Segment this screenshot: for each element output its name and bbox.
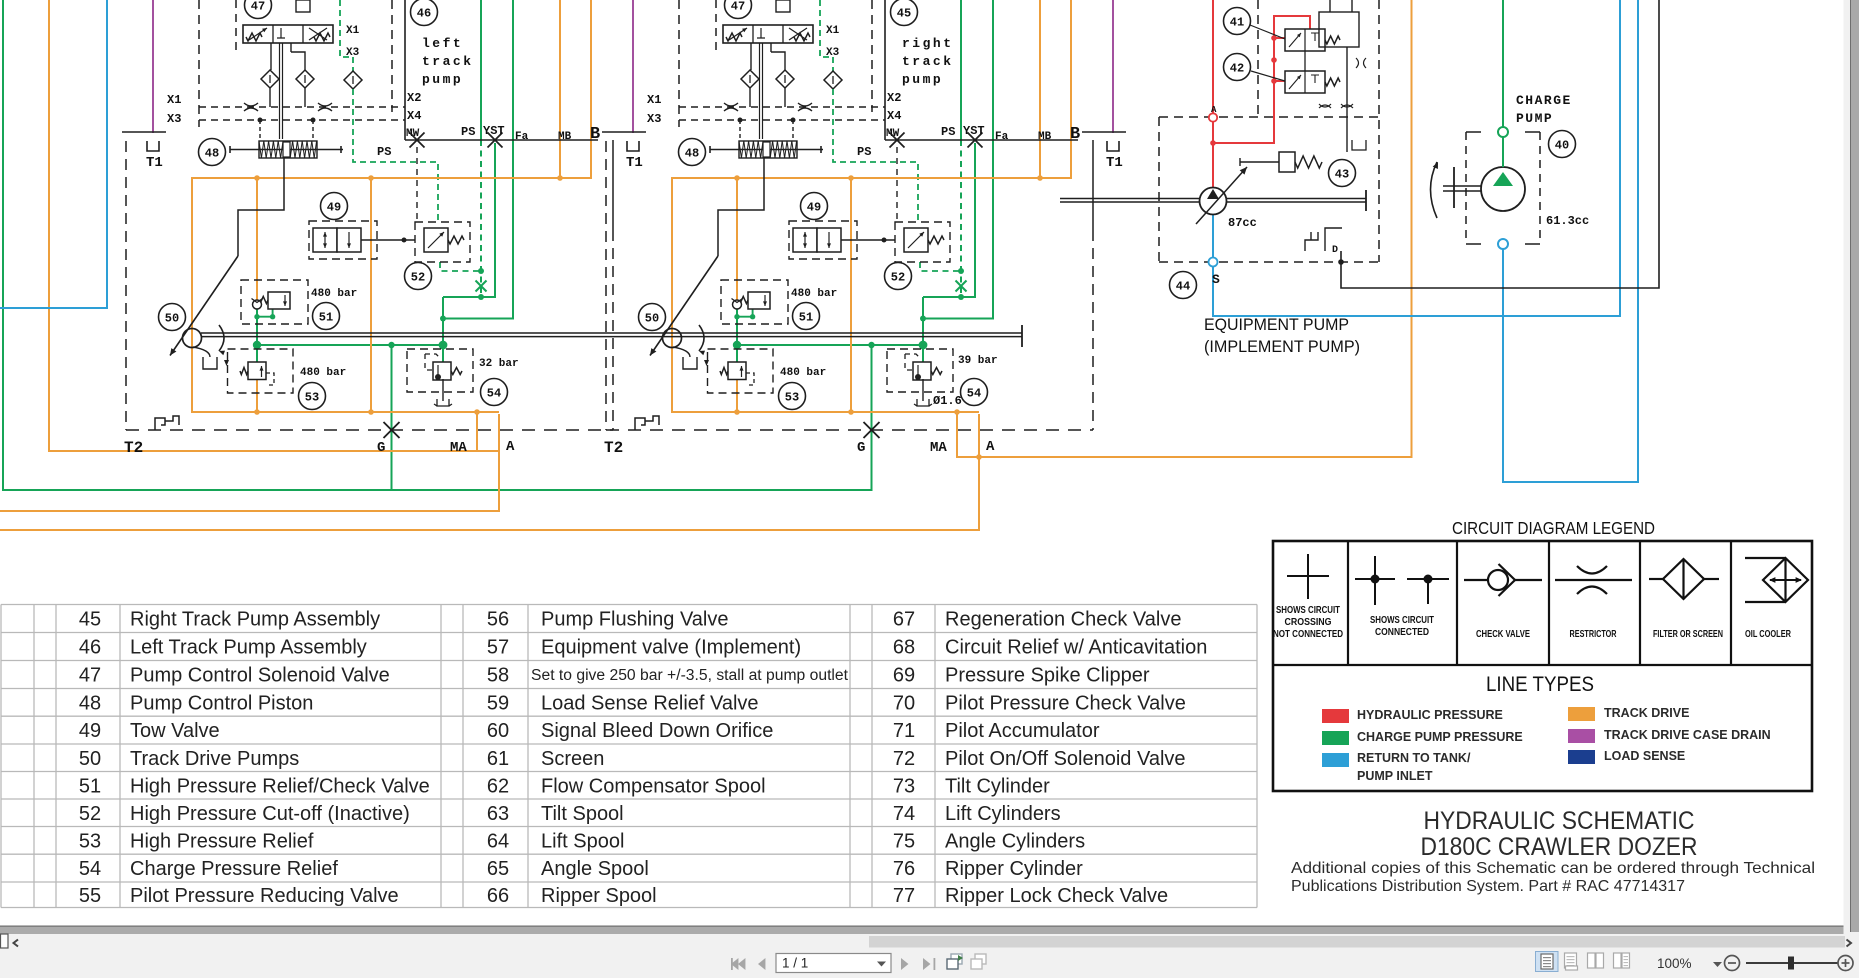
svg-text:CONNECTED: CONNECTED [1375,627,1429,638]
svg-text:Load Sense Relief Valve: Load Sense Relief Valve [541,692,759,714]
svg-text:MB: MB [1038,131,1052,143]
svg-text:43: 43 [1335,168,1349,182]
svg-text:Equipment valve (Implement): Equipment valve (Implement) [541,637,801,659]
svg-text:X3: X3 [826,47,840,59]
svg-text:X4: X4 [407,109,421,123]
svg-text:100%: 100% [1657,956,1692,971]
svg-text:52: 52 [891,271,905,285]
svg-text:X1: X1 [647,93,661,107]
svg-text:MA: MA [450,440,467,456]
svg-text:1 / 1: 1 / 1 [782,956,808,971]
svg-text:X3: X3 [346,47,360,59]
svg-text:65: 65 [487,858,509,880]
svg-text:480 bar: 480 bar [791,288,837,300]
svg-text:77: 77 [893,885,915,907]
svg-text:75: 75 [893,830,915,852]
svg-text:59: 59 [487,692,509,714]
svg-text:G: G [857,440,865,456]
svg-text:left: left [422,36,463,51]
svg-text:SHOWS CIRCUIT: SHOWS CIRCUIT [1276,605,1340,616]
svg-text:PUMP INLET: PUMP INLET [1357,769,1433,783]
svg-text:T1: T1 [146,155,163,171]
svg-text:46: 46 [79,637,101,659]
svg-text:Set to give 250 bar +/-3.5, st: Set to give 250 bar +/-3.5, stall at pum… [531,667,849,684]
svg-text:PUMP: PUMP [1516,111,1553,126]
svg-text:53: 53 [785,391,799,405]
svg-text:Pilot Pressure Check Valve: Pilot Pressure Check Valve [945,692,1186,714]
svg-text:54: 54 [487,387,501,401]
svg-text:32 bar: 32 bar [479,358,519,370]
svg-text:40: 40 [1555,139,1569,153]
svg-text:T1: T1 [1106,155,1123,171]
svg-text:Ø1.6: Ø1.6 [933,394,962,408]
svg-text:PS: PS [857,145,871,159]
svg-text:T2: T2 [604,439,623,457]
svg-text:TRACK DRIVE: TRACK DRIVE [1604,706,1689,720]
svg-text:64: 64 [487,830,509,852]
svg-text:76: 76 [893,858,915,880]
svg-text:RESTRICTOR: RESTRICTOR [1570,629,1618,640]
svg-text:Additional copies of this Sche: Additional copies of this Schematic can … [1291,860,1815,877]
svg-text:LOAD SENSE: LOAD SENSE [1604,749,1685,763]
svg-text:MW: MW [886,128,900,140]
svg-text:YST: YST [963,124,985,138]
svg-text:52: 52 [411,271,425,285]
svg-text:53: 53 [79,830,101,852]
svg-text:50: 50 [165,312,179,326]
svg-text:60: 60 [487,720,509,742]
svg-text:X3: X3 [647,112,661,126]
svg-text:CHARGE: CHARGE [1516,93,1572,108]
svg-text:pump: pump [902,72,943,87]
svg-text:Pump Flushing Valve: Pump Flushing Valve [541,609,729,631]
svg-text:56: 56 [487,609,509,631]
svg-text:70: 70 [893,692,915,714]
svg-text:51: 51 [79,775,101,797]
svg-text:39 bar: 39 bar [958,355,998,367]
svg-text:Left Track Pump Assembly: Left Track Pump Assembly [130,637,367,659]
svg-text:RETURN TO TANK/: RETURN TO TANK/ [1357,751,1471,765]
svg-text:Flow Compensator Spool: Flow Compensator Spool [541,775,766,797]
svg-text:T2: T2 [124,439,143,457]
svg-text:X1: X1 [346,25,360,37]
svg-text:480 bar: 480 bar [311,288,357,300]
svg-text:49: 49 [807,201,821,215]
svg-text:45: 45 [79,609,101,631]
svg-text:NOT CONNECTED: NOT CONNECTED [1273,629,1343,640]
svg-text:58: 58 [487,665,509,687]
svg-text:52: 52 [79,803,101,825]
svg-text:Fa: Fa [515,131,529,143]
svg-text:Signal Bleed Down Orifice: Signal Bleed Down Orifice [541,720,773,742]
svg-text:46: 46 [417,7,431,21]
svg-text:EQUIPMENT PUMP: EQUIPMENT PUMP [1204,315,1349,334]
svg-text:66: 66 [487,885,509,907]
svg-text:S: S [1212,272,1220,287]
svg-text:63: 63 [487,803,509,825]
svg-text:(IMPLEMENT PUMP): (IMPLEMENT PUMP) [1204,337,1360,356]
svg-text:Publications Distribution Syst: Publications Distribution System. Part #… [1291,878,1685,895]
svg-text:TRACK DRIVE CASE DRAIN: TRACK DRIVE CASE DRAIN [1604,728,1771,742]
svg-text:Regeneration Check Valve: Regeneration Check Valve [945,609,1181,631]
svg-text:50: 50 [79,748,101,770]
svg-text:49: 49 [327,201,341,215]
svg-text:FILTER OR SCREEN: FILTER OR SCREEN [1653,629,1723,640]
svg-text:50: 50 [645,312,659,326]
svg-text:87cc: 87cc [1228,216,1257,230]
svg-text:Pressure Spike Clipper: Pressure Spike Clipper [945,665,1150,687]
svg-text:Track Drive Pumps: Track Drive Pumps [130,748,299,770]
svg-text:57: 57 [487,637,509,659]
svg-text:Pilot Accumulator: Pilot Accumulator [945,720,1100,742]
svg-text:MA: MA [930,440,947,456]
svg-text:SHOWS CIRCUIT: SHOWS CIRCUIT [1370,615,1434,626]
svg-text:48: 48 [79,692,101,714]
svg-text:480 bar: 480 bar [780,367,826,379]
svg-text:Right Track Pump Assembly: Right Track Pump Assembly [130,609,380,631]
svg-text:G: G [377,440,385,456]
svg-text:X2: X2 [407,91,421,105]
svg-text:55: 55 [79,885,101,907]
svg-text:Circuit Relief w/ Anticavitati: Circuit Relief w/ Anticavitation [945,637,1207,659]
svg-text:Tilt Spool: Tilt Spool [541,803,624,825]
svg-text:OIL COOLER: OIL COOLER [1745,629,1792,640]
svg-text:51: 51 [799,311,813,325]
svg-text:Charge Pressure Relief: Charge Pressure Relief [130,858,338,880]
svg-text:HYDRAULIC PRESSURE: HYDRAULIC PRESSURE [1357,708,1503,722]
svg-text:CROSSING: CROSSING [1285,617,1332,628]
svg-text:54: 54 [967,387,981,401]
svg-text:48: 48 [685,147,699,161]
svg-text:62: 62 [487,775,509,797]
svg-text:61.3cc: 61.3cc [1546,214,1589,228]
svg-text:Lift Spool: Lift Spool [541,830,624,852]
svg-text:69: 69 [893,665,915,687]
svg-text:54: 54 [79,858,101,880]
svg-text:45: 45 [897,7,911,21]
svg-text:YST: YST [483,124,505,138]
svg-text:CIRCUIT DIAGRAM LEGEND: CIRCUIT DIAGRAM LEGEND [1452,518,1655,538]
svg-text:B: B [590,125,600,144]
svg-text:X1: X1 [826,25,840,37]
svg-text:Tilt Cylinder: Tilt Cylinder [945,775,1050,797]
svg-text:Ripper Cylinder: Ripper Cylinder [945,858,1083,880]
svg-text:MB: MB [558,131,572,143]
svg-text:track: track [422,54,474,69]
svg-text:61: 61 [487,748,509,770]
svg-text:Fa: Fa [995,131,1009,143]
svg-text:47: 47 [731,0,745,14]
svg-text:Tow Valve: Tow Valve [130,720,220,742]
svg-text:53: 53 [305,391,319,405]
svg-text:67: 67 [893,609,915,631]
svg-text:X3: X3 [167,112,181,126]
svg-text:PS: PS [461,125,475,139]
svg-text:Ripper Lock Check Valve: Ripper Lock Check Valve [945,885,1168,907]
svg-text:42: 42 [1230,62,1244,76]
svg-text:B: B [1070,125,1080,144]
svg-text:47: 47 [79,665,101,687]
svg-text:A: A [986,439,995,455]
svg-text:Pilot Pressure Reducing Valve: Pilot Pressure Reducing Valve [130,885,399,907]
svg-text:72: 72 [893,748,915,770]
svg-text:HYDRAULIC SCHEMATIC: HYDRAULIC SCHEMATIC [1424,807,1695,835]
svg-text:Ripper Spool: Ripper Spool [541,885,657,907]
svg-text:480 bar: 480 bar [300,367,346,379]
svg-text:Screen: Screen [541,748,604,770]
svg-text:Pump Control Piston: Pump Control Piston [130,692,313,714]
svg-text:X1: X1 [167,93,181,107]
svg-text:High Pressure Relief: High Pressure Relief [130,830,314,852]
svg-text:49: 49 [79,720,101,742]
svg-text:PS: PS [377,145,391,159]
svg-text:Pump Control Solenoid Valve: Pump Control Solenoid Valve [130,665,390,687]
svg-text:D: D [1332,245,1338,256]
svg-text:track: track [902,54,954,69]
svg-text:PS: PS [941,125,955,139]
svg-text:Lift Cylinders: Lift Cylinders [945,803,1061,825]
svg-text:LINE TYPES: LINE TYPES [1486,673,1594,696]
svg-text:MW: MW [406,128,420,140]
svg-text:73: 73 [893,775,915,797]
svg-text:44: 44 [1176,280,1190,294]
svg-text:D180C CRAWLER DOZER: D180C CRAWLER DOZER [1421,833,1698,861]
svg-text:41: 41 [1230,16,1244,30]
svg-text:48: 48 [205,147,219,161]
svg-text:High Pressure Relief/Check Val: High Pressure Relief/Check Valve [130,775,430,797]
svg-text:A: A [506,439,515,455]
svg-text:X2: X2 [887,91,901,105]
svg-text:Pilot On/Off Solenoid Valve: Pilot On/Off Solenoid Valve [945,748,1186,770]
svg-text:CHARGE PUMP PRESSURE: CHARGE PUMP PRESSURE [1357,730,1523,744]
svg-text:51: 51 [319,311,333,325]
svg-text:Angle Spool: Angle Spool [541,858,649,880]
svg-text:pump: pump [422,72,463,87]
svg-text:68: 68 [893,637,915,659]
svg-text:CHECK VALVE: CHECK VALVE [1476,629,1530,640]
svg-text:47: 47 [251,0,265,14]
svg-text:71: 71 [893,720,915,742]
svg-text:High Pressure Cut-off (Inactiv: High Pressure Cut-off (Inactive) [130,803,410,825]
svg-text:T1: T1 [626,155,643,171]
svg-text:X4: X4 [887,109,901,123]
svg-text:74: 74 [893,803,915,825]
svg-text:Angle Cylinders: Angle Cylinders [945,830,1085,852]
svg-text:right: right [902,36,954,51]
